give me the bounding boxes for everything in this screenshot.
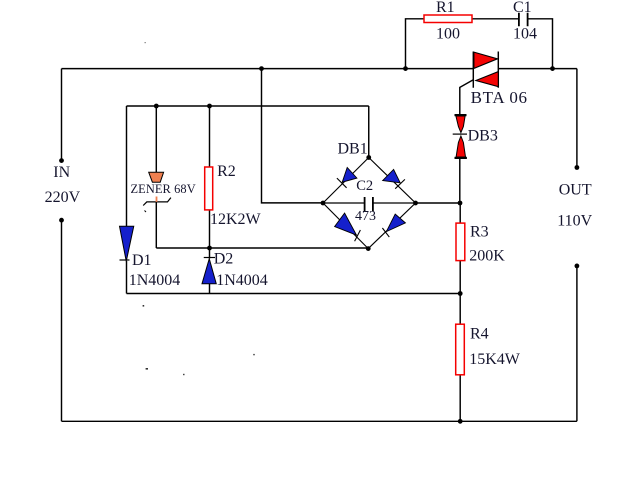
svg-text:100: 100 xyxy=(436,26,460,43)
svg-text:DB3: DB3 xyxy=(468,128,498,145)
svg-text:R4: R4 xyxy=(470,326,489,343)
svg-text:BTA 06: BTA 06 xyxy=(471,88,528,107)
svg-text:DB1: DB1 xyxy=(338,141,368,158)
svg-text:R3: R3 xyxy=(470,224,489,241)
svg-text:D1: D1 xyxy=(132,252,152,269)
svg-text:200K: 200K xyxy=(469,248,505,265)
svg-text:OUT: OUT xyxy=(559,182,592,199)
svg-text:110V: 110V xyxy=(557,213,592,230)
svg-text:C1: C1 xyxy=(513,0,532,16)
svg-text:104: 104 xyxy=(513,26,537,43)
svg-text:D2: D2 xyxy=(214,251,234,268)
svg-text:R2: R2 xyxy=(217,163,236,180)
svg-text:12K2W: 12K2W xyxy=(210,211,262,228)
svg-text:ZENER 68V: ZENER 68V xyxy=(131,182,196,196)
svg-text:220V: 220V xyxy=(45,189,81,206)
svg-text:R1: R1 xyxy=(436,0,455,16)
svg-text:15K4W: 15K4W xyxy=(469,351,521,368)
svg-text:1N4004: 1N4004 xyxy=(216,272,268,289)
svg-text:473: 473 xyxy=(355,209,376,224)
svg-text:IN: IN xyxy=(53,164,70,181)
svg-text:1N4004: 1N4004 xyxy=(129,272,181,289)
svg-text:C2: C2 xyxy=(356,178,373,194)
